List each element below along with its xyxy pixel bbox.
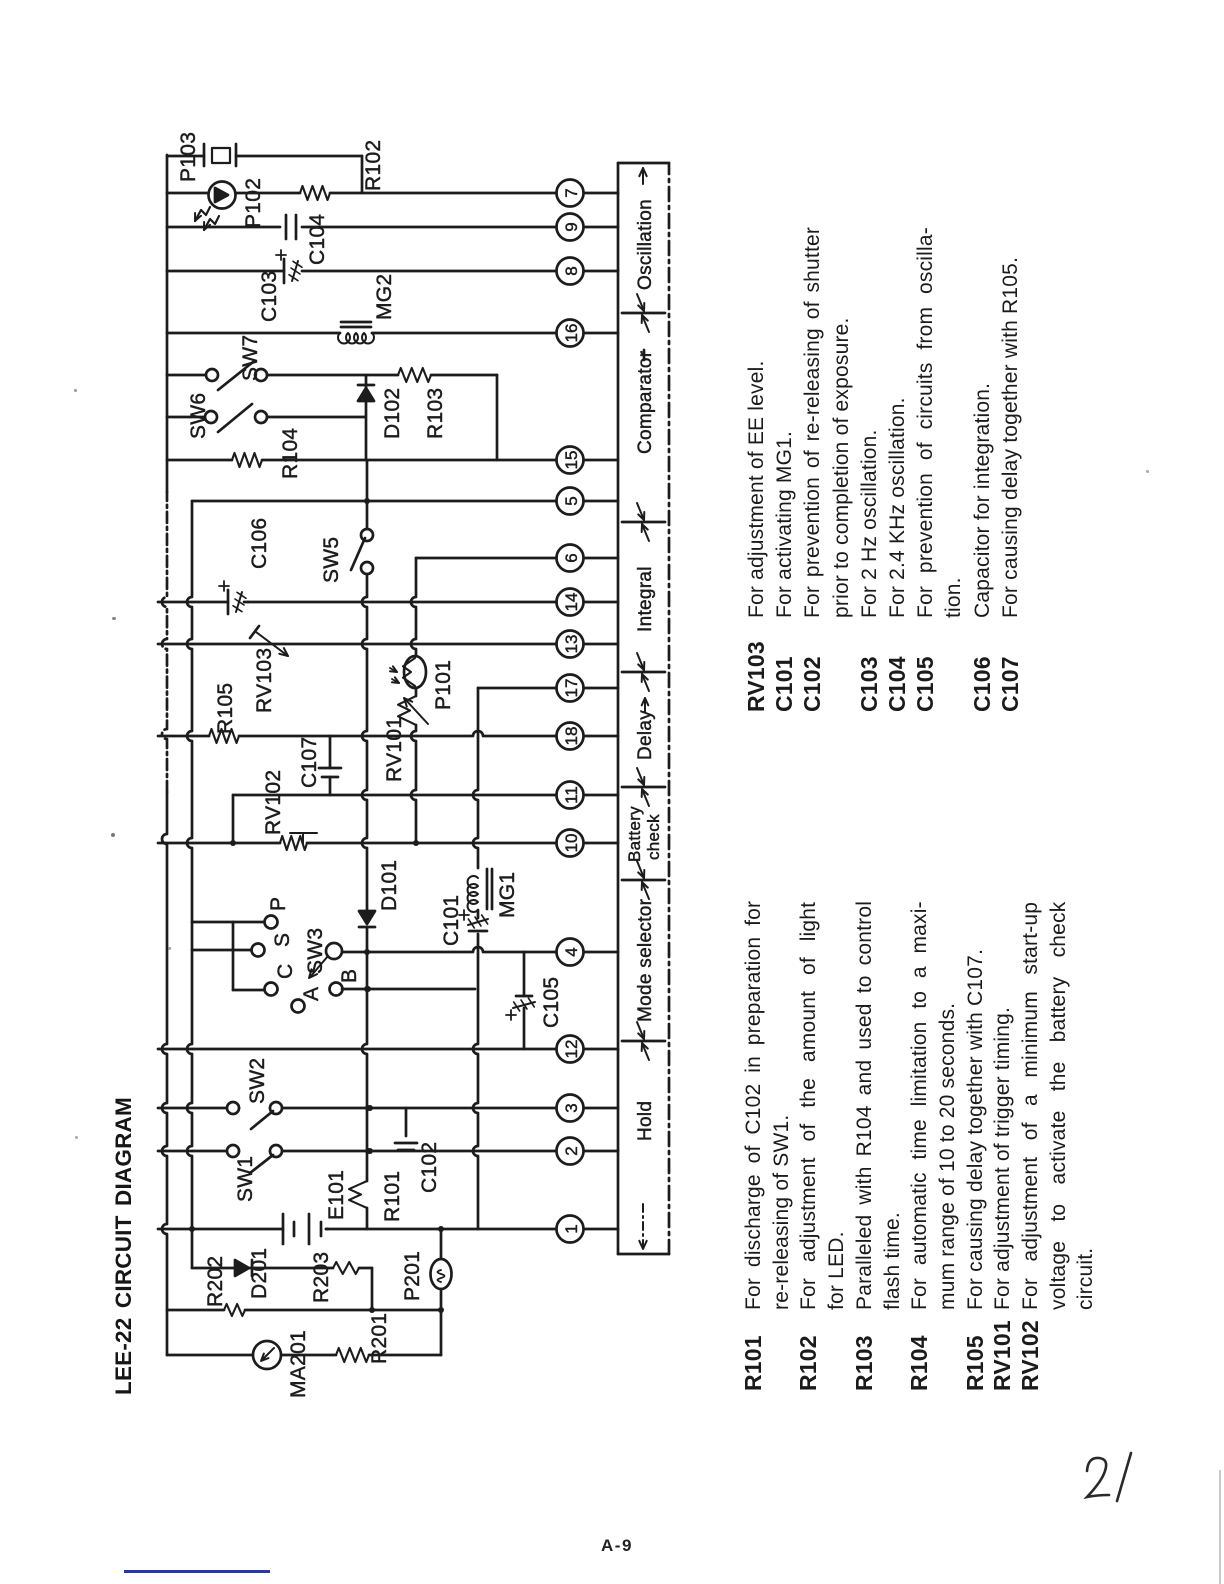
label R103	[424, 388, 447, 439]
svg-text:18: 18	[562, 727, 581, 746]
capacitor C102 line	[405, 1108, 408, 1150]
svg-text:SW2: SW2	[246, 1058, 269, 1104]
label C104	[306, 214, 329, 265]
switch SW1	[227, 1145, 282, 1173]
label R102	[362, 140, 385, 191]
capacitor C106	[219, 581, 248, 614]
component description list C-group	[743, 641, 770, 712]
label SW3	[304, 928, 327, 974]
diode D102	[358, 375, 374, 460]
svg-text:4: 4	[562, 947, 581, 956]
wire bus 10 (RV102 line)	[158, 840, 556, 846]
terminal 11	[556, 782, 618, 809]
label C101	[440, 895, 463, 946]
svg-text:R203: R203	[310, 1252, 333, 1303]
photoresistor P101	[390, 656, 426, 688]
lamp P102	[209, 182, 236, 209]
terminal 9	[556, 214, 618, 241]
svg-text:R102: R102	[362, 140, 385, 191]
svg-text:R105: R105	[214, 683, 237, 734]
resistor R102	[300, 186, 330, 200]
label MG1	[496, 872, 519, 918]
wire bus 11	[233, 794, 556, 797]
wire bus 7 (P102/R102 line)	[167, 192, 556, 195]
svg-text:MG1: MG1	[496, 872, 519, 918]
capacitor C105	[506, 996, 535, 1020]
switch SW6	[167, 404, 365, 432]
title LEE-22 CIRCUIT DIAGRAM	[111, 1097, 137, 1395]
bracket label Mode selector	[635, 898, 656, 1022]
wire bus 1 (battery line E101)	[158, 1228, 556, 1231]
blue ink line bottom	[124, 1570, 270, 1573]
wire line C (MG1/C101 chain)	[473, 688, 478, 1229]
selector SW3 contact B	[330, 969, 362, 996]
svg-text:C106: C106	[248, 518, 271, 569]
bracket label Integral	[635, 566, 656, 632]
resistor R202 line	[167, 1307, 444, 1313]
label C106	[248, 518, 271, 569]
selector SW3 common wire	[232, 922, 235, 990]
bracket divider 1	[622, 1022, 665, 1060]
label MG2	[373, 274, 396, 320]
label C107	[298, 737, 321, 788]
bracket label Delay	[635, 698, 656, 760]
meter MA201 line	[167, 1354, 441, 1357]
bracket label Battery check	[625, 806, 663, 862]
function bracket box	[618, 163, 669, 1254]
label P103	[177, 132, 200, 182]
wire bus 2 (SW1 line)	[158, 1148, 556, 1154]
svg-text:17: 17	[562, 679, 581, 698]
label R104	[279, 428, 302, 479]
terminal 10	[556, 830, 618, 857]
wire bus 18 (R105 line)	[158, 731, 556, 736]
svg-text:R103: R103	[424, 388, 447, 439]
svg-text:D102: D102	[381, 388, 404, 439]
resistor R104	[232, 453, 262, 467]
label R101	[381, 1171, 404, 1222]
label C105	[540, 977, 563, 1028]
svg-text:R101: R101	[381, 1171, 404, 1222]
label SW2	[246, 1058, 269, 1104]
capacitor C107	[319, 736, 341, 795]
svg-text:7: 7	[562, 188, 581, 197]
svg-text:16: 16	[562, 324, 581, 343]
svg-text:6: 6	[562, 553, 581, 562]
resistor R201	[336, 1348, 369, 1362]
wire bus 14 (C106 line)	[158, 601, 556, 604]
svg-text:S: S	[271, 933, 294, 947]
resistor R103	[398, 368, 431, 382]
lamp P201 line	[438, 1226, 444, 1355]
svg-text:1: 1	[562, 1224, 581, 1233]
svg-text:12: 12	[562, 1040, 581, 1059]
label D102	[381, 388, 404, 439]
capacitor C101	[459, 910, 488, 931]
wire bus 12	[158, 1048, 556, 1051]
label R105	[214, 683, 237, 734]
selector SW3 contact P	[192, 897, 290, 929]
svg-text:C105: C105	[540, 977, 563, 1028]
flash contact P103 line	[167, 144, 362, 166]
wire bus 9 (C104 line)	[167, 226, 556, 229]
terminal 16	[556, 320, 618, 347]
svg-text:C: C	[274, 964, 297, 979]
wire SW3 B to line C	[342, 986, 475, 992]
svg-text:C103: C103	[258, 271, 281, 322]
svg-text:D201: D201	[248, 1248, 271, 1299]
svg-text:2: 2	[562, 1146, 581, 1155]
svg-text:SW3: SW3	[304, 928, 327, 974]
svg-text:R104: R104	[279, 428, 302, 479]
page number A-9	[601, 1536, 633, 1556]
lamp P201	[431, 1259, 452, 1289]
svg-text:SW7: SW7	[239, 335, 262, 381]
wire P103 to bus7	[361, 156, 364, 193]
selector SW3 contact S	[192, 933, 294, 957]
svg-text:Mode selector: Mode selector	[635, 898, 656, 1022]
bracket divider 4	[622, 653, 665, 691]
svg-text:C102: C102	[418, 1142, 441, 1193]
label SW7	[239, 335, 262, 381]
svg-text:14: 14	[562, 593, 581, 612]
wire bus 4 (mode selector wiper line)	[342, 947, 556, 952]
wire R103 return	[496, 375, 499, 460]
svg-text:10: 10	[562, 834, 581, 853]
label SW5	[320, 537, 343, 583]
svg-text:11: 11	[562, 786, 581, 804]
terminal 1	[556, 1216, 618, 1243]
svg-text:check: check	[644, 814, 663, 860]
terminal 6	[556, 545, 618, 572]
svg-text:MG2: MG2	[373, 274, 396, 320]
terminal 3	[556, 1095, 618, 1122]
svg-text:B: B	[338, 969, 361, 983]
svg-text:5: 5	[562, 496, 581, 505]
selector SW3 contact A	[292, 987, 324, 1013]
resistor R203	[333, 1262, 359, 1274]
label RV101	[383, 717, 406, 782]
label SW6	[187, 393, 210, 439]
wire outer rail (top horizontal rail)	[162, 155, 167, 1355]
label R203	[310, 1252, 333, 1303]
capacitor C105 line	[523, 952, 526, 1049]
svg-text:RV102: RV102	[262, 770, 285, 835]
svg-text:P101: P101	[432, 660, 455, 710]
svg-text:13: 13	[562, 635, 581, 654]
terminal 2	[556, 1138, 618, 1165]
wire D201 branch bottom	[371, 1268, 374, 1310]
svg-text:C101: C101	[440, 895, 463, 946]
wire inner rail (second horizontal rail)	[187, 501, 195, 1268]
bracket divider 3	[622, 768, 665, 806]
label P102	[242, 178, 265, 228]
label P201	[401, 1251, 424, 1301]
magnet coil MG2	[338, 322, 374, 343]
svg-text:9: 9	[562, 222, 581, 231]
resistor R105	[209, 729, 239, 743]
terminal 7	[556, 180, 618, 207]
label C102	[418, 1142, 441, 1193]
svg-text:3: 3	[562, 1103, 581, 1112]
terminal 18	[556, 723, 618, 750]
selector SW3 contact C	[233, 964, 297, 996]
terminal 12	[556, 1036, 618, 1063]
svg-text:SW6: SW6	[187, 393, 210, 439]
diode D201	[235, 1260, 256, 1276]
terminal 13	[556, 631, 618, 658]
switch SW2	[227, 1102, 282, 1129]
label RV103	[253, 648, 276, 713]
bracket divider 5	[622, 503, 665, 541]
svg-text:Integral: Integral	[635, 566, 656, 632]
label C103	[258, 271, 281, 322]
wire bus 16 (MG2 line)	[167, 332, 556, 335]
svg-text:R202: R202	[204, 1256, 227, 1307]
svg-text:15: 15	[562, 451, 581, 470]
svg-text:A: A	[300, 987, 323, 1001]
svg-text:E101: E101	[325, 1170, 348, 1220]
trimmer RV103	[250, 626, 288, 656]
terminal 5	[556, 488, 618, 515]
capacitor C104	[286, 215, 296, 239]
wire connector bus10-bus11	[230, 795, 236, 846]
svg-text:P102: P102	[242, 178, 265, 228]
svg-text:Oscillation: Oscillation	[635, 199, 656, 290]
wire bus 5	[192, 500, 556, 503]
label MA201	[287, 1330, 310, 1398]
bracket divider 2	[622, 861, 665, 899]
wire bus 15 (R104 line)	[167, 459, 556, 462]
capacitor C103	[276, 250, 302, 283]
flash arrows at P102	[195, 207, 219, 230]
wire bus 6	[416, 557, 556, 560]
diode D101	[359, 911, 375, 927]
label P101	[432, 660, 455, 710]
battery E101	[283, 1214, 328, 1244]
label SW1	[234, 1156, 257, 1202]
magnet coil MG1	[468, 869, 492, 912]
svg-text:SW1: SW1	[234, 1156, 257, 1202]
svg-text:Battery: Battery	[625, 806, 644, 862]
label D201	[248, 1248, 271, 1299]
wire bus 17	[478, 687, 556, 690]
terminal 4	[556, 939, 618, 966]
svg-text:RV101: RV101	[383, 717, 406, 782]
svg-text:D101: D101	[378, 860, 401, 911]
bracket label Comparator	[635, 350, 656, 454]
label R201	[368, 1313, 391, 1364]
bracket arrow left end	[639, 1204, 646, 1249]
selector SW3 wiper	[309, 943, 342, 978]
potentiometer RV102	[280, 833, 317, 850]
bracket label Oscillation	[635, 199, 656, 290]
svg-text:MA201: MA201	[287, 1330, 310, 1398]
svg-text:R201: R201	[368, 1313, 391, 1364]
label RV102	[262, 770, 285, 835]
switch SW7 and bus	[167, 362, 497, 390]
diode D201 line	[192, 1267, 372, 1270]
scan specks	[74, 389, 77, 392]
svg-text:Comparator: Comparator	[635, 350, 656, 454]
svg-text:RV103: RV103	[253, 648, 276, 713]
wire bus 13 (RV103 line)	[158, 643, 556, 646]
wire line B (P101/RV101 chain)	[411, 558, 416, 843]
wire line A (SW5/D101/R101 chain)	[362, 460, 371, 1229]
bracket arrow right end	[639, 168, 646, 184]
wire bus 3 (SW2 line)	[158, 1105, 556, 1111]
handwritten 21	[1075, 1445, 1155, 1515]
terminal 15	[556, 447, 618, 474]
terminal 17	[556, 675, 618, 702]
variable resistor RV101	[398, 696, 428, 725]
meter MA201	[253, 1341, 281, 1369]
bracket divider 6	[622, 294, 665, 332]
resistor R101	[349, 1181, 367, 1208]
wire bus 8 (C103 line)	[167, 270, 556, 273]
svg-text:8: 8	[562, 266, 581, 275]
terminal 14	[556, 589, 618, 616]
svg-text:Hold: Hold	[635, 1101, 656, 1141]
label R202	[204, 1256, 227, 1307]
resistor R202	[224, 1304, 245, 1316]
svg-text:C107: C107	[298, 737, 321, 788]
svg-text:P: P	[267, 897, 290, 911]
switch SW5	[351, 529, 373, 574]
svg-text:SW5: SW5	[320, 537, 343, 583]
label D101	[378, 860, 401, 911]
svg-text:P103: P103	[177, 132, 200, 182]
svg-text:P201: P201	[401, 1251, 424, 1301]
label E101	[325, 1170, 348, 1220]
component description list R-group	[740, 1335, 767, 1391]
capacitor C102	[395, 1143, 417, 1150]
svg-text:C104: C104	[306, 214, 329, 265]
terminal 8	[556, 258, 618, 285]
bracket label Hold	[635, 1101, 656, 1141]
svg-text:Delay: Delay	[635, 710, 656, 760]
